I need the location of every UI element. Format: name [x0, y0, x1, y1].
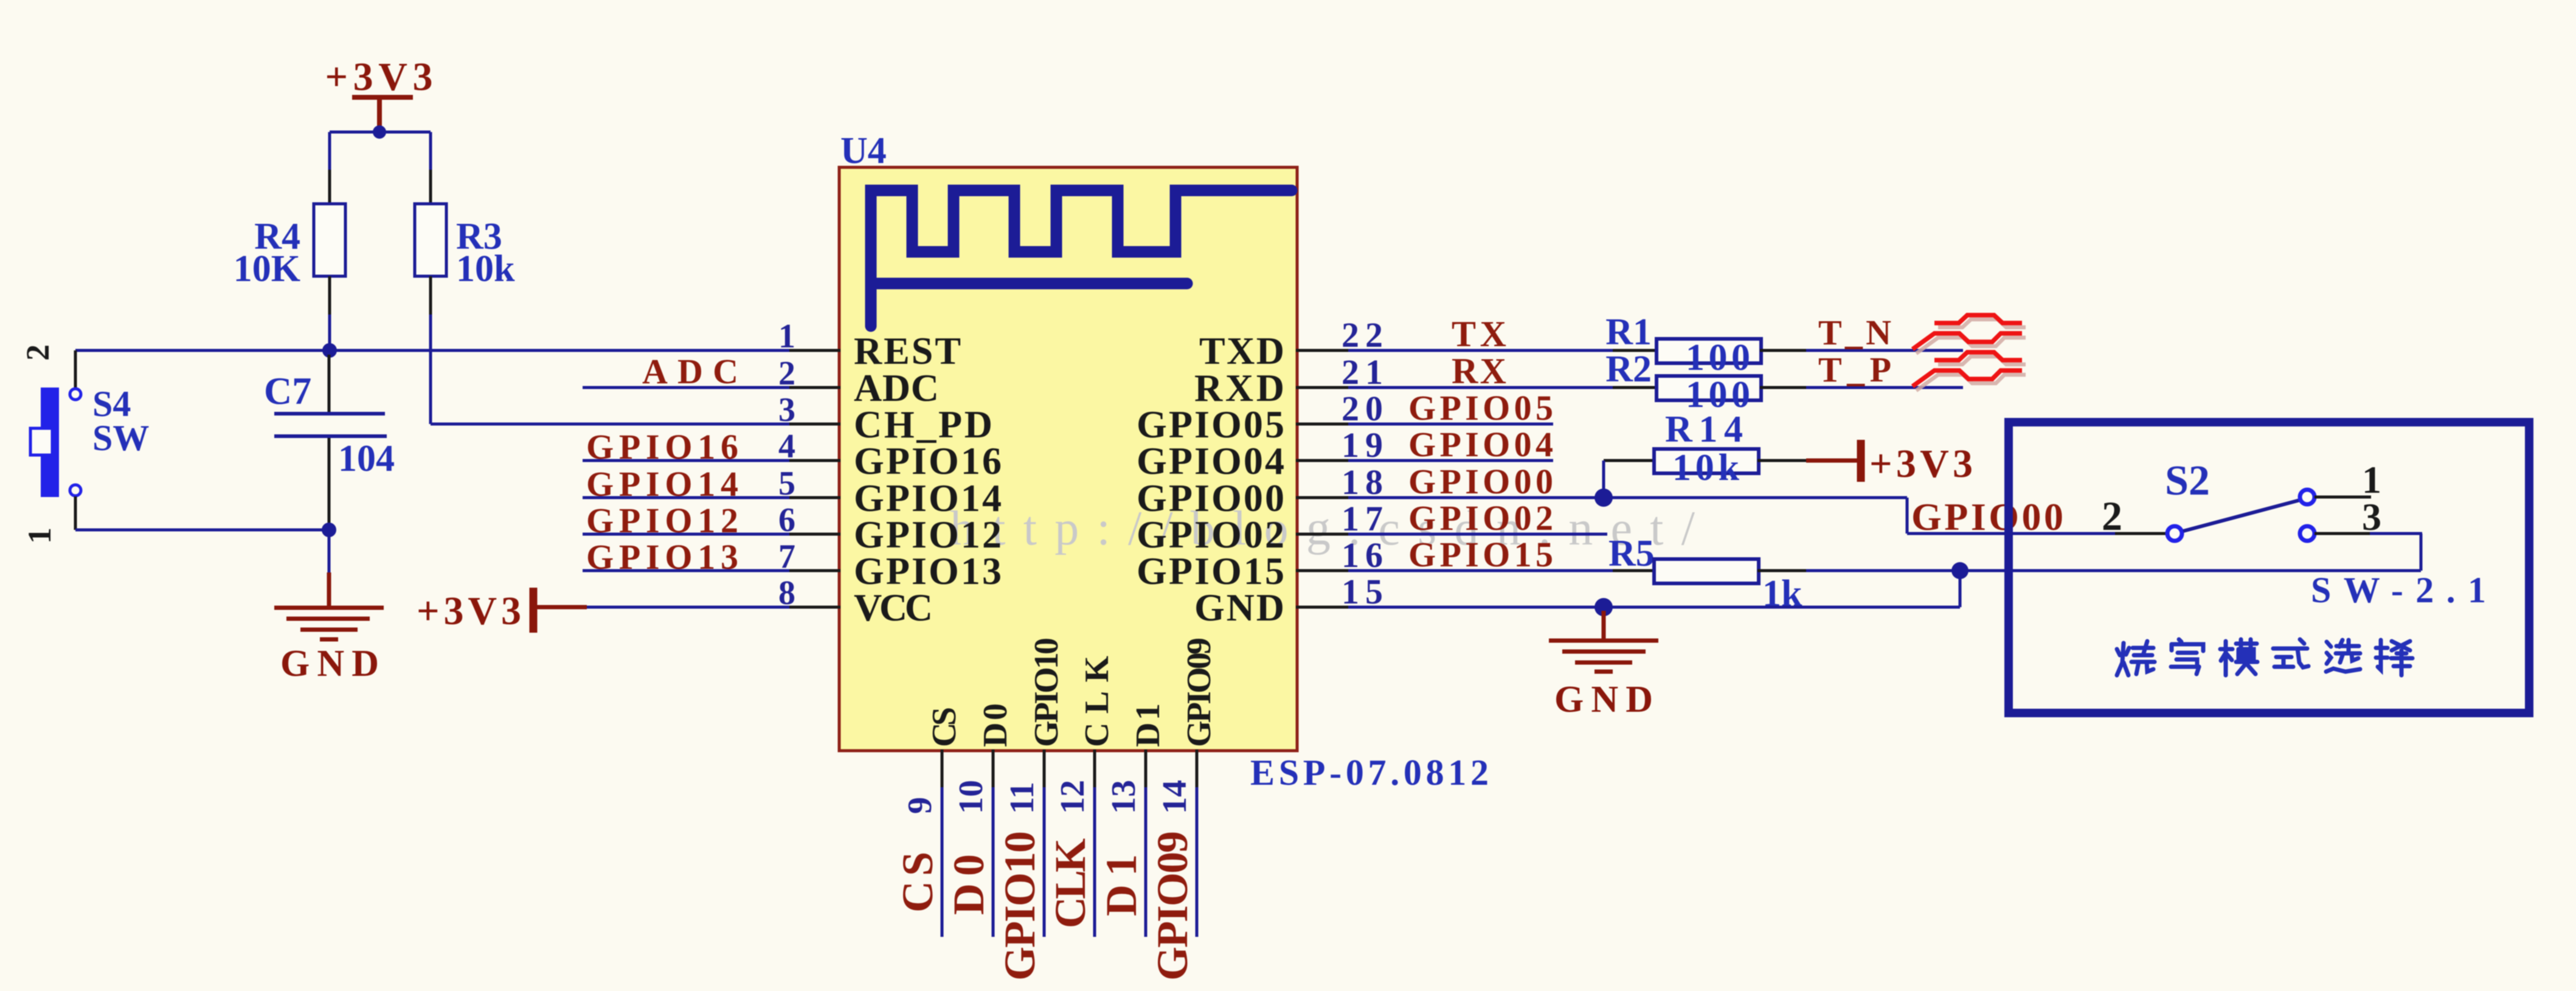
- svg-text:D0: D0: [977, 703, 1014, 747]
- U4 pin 16 stub: [1296, 569, 1348, 572]
- burn-mode selection box outline: [2009, 422, 2529, 713]
- svg-text:19: 19: [1342, 425, 1389, 465]
- wire GPIO12: [583, 533, 789, 536]
- U4 pin 8 stub: [789, 606, 840, 609]
- svg-text:R5: R5: [1608, 533, 1655, 574]
- svg-text:104: 104: [338, 438, 395, 479]
- capacitor C7 top plate: [274, 412, 385, 416]
- power +3V3 (R14) bar: [1857, 440, 1865, 482]
- svg-text:GPIO10: GPIO10: [1028, 638, 1065, 747]
- svg-text:GND: GND: [1194, 586, 1284, 629]
- resistor R5 body: [1654, 559, 1759, 583]
- svg-text:+3V3: +3V3: [1869, 442, 1973, 486]
- svg-text:1: 1: [21, 527, 58, 544]
- svg-text:13: 13: [1105, 780, 1143, 814]
- wire C7 to GND junction: [328, 524, 331, 530]
- wire R3 leg down to CH_PD row: [429, 315, 432, 424]
- svg-text:16: 16: [1342, 535, 1389, 575]
- power +3V3 (top left) bar: [352, 95, 413, 100]
- switch S2 blade: [2183, 500, 2300, 531]
- switch S2 pin2 contact: [2167, 526, 2182, 541]
- switch S4 actuator: [30, 428, 52, 455]
- svg-text:2: 2: [19, 344, 56, 361]
- U4 pin 1 stub: [789, 349, 840, 352]
- U4 antenna meander symbol: [871, 190, 1292, 326]
- caption char 择: [2376, 640, 2412, 675]
- ground (left) stem blue: [328, 530, 331, 572]
- switch S4 top stub: [74, 350, 77, 388]
- node GPIO00/R14 junction: [1594, 489, 1613, 507]
- U4 pin 9 stub: [941, 749, 944, 787]
- svg-text:GPIO09: GPIO09: [1180, 638, 1218, 747]
- wire +3V3 rail: [330, 131, 431, 134]
- wire GPIO04: [1348, 459, 1553, 462]
- U4 pin 13 wire: [1144, 787, 1148, 937]
- svg-text:http://blog.csdn.net/: http://blog.csdn.net/: [950, 502, 1695, 555]
- power +3V3 (R14) stem: [1806, 459, 1858, 463]
- power +3V3 (top left) stem: [377, 97, 382, 129]
- wire S2 pin3 to corner: [2370, 532, 2422, 535]
- wire RX to twisted pair: [1806, 386, 1963, 389]
- U4 pin 21 stub: [1296, 386, 1348, 389]
- wire R4 to REST row: [328, 315, 331, 350]
- power +3V3 (VCC) stem: [537, 605, 587, 610]
- svg-text:C7: C7: [264, 369, 311, 412]
- resistor R5 left pin: [1613, 569, 1658, 572]
- U4 pin 11 stub: [1043, 749, 1046, 787]
- svg-text:11: 11: [1003, 782, 1041, 814]
- resistor R3 body: [415, 204, 446, 276]
- U4 pin 14 wire: [1196, 787, 1199, 937]
- svg-text:20: 20: [1342, 389, 1389, 428]
- svg-text:D1: D1: [1129, 703, 1167, 747]
- node S4/C7/GND junction: [322, 523, 336, 537]
- svg-text:R2: R2: [1605, 349, 1652, 390]
- resistor R4 top pin: [328, 170, 331, 205]
- svg-text:10k: 10k: [1672, 447, 1740, 489]
- svg-text:GPIO10: GPIO10: [995, 831, 1044, 981]
- svg-text:GND: GND: [1554, 679, 1653, 720]
- resistor R4 bottom pin: [328, 276, 331, 315]
- node +3V3 junction: [373, 125, 386, 139]
- svg-text:ADC: ADC: [642, 352, 738, 391]
- svg-text:15: 15: [1342, 572, 1389, 611]
- svg-text:10K: 10K: [234, 248, 300, 290]
- U4 pin 10 stub: [992, 749, 995, 787]
- switch S4 bottom stub: [74, 496, 77, 530]
- U4 pin 6 stub: [789, 533, 840, 536]
- wire S2 corner vertical: [2420, 534, 2423, 571]
- switch S2 pin3 stub: [2315, 532, 2371, 535]
- svg-text:CLK: CLK: [1046, 838, 1095, 928]
- node GND row junction: [1594, 598, 1613, 616]
- wire S4 pin1 row to C7 bottom: [75, 529, 329, 532]
- svg-text:R1: R1: [1605, 311, 1652, 353]
- svg-text:3: 3: [2362, 495, 2381, 538]
- wire GND row: [1348, 606, 1606, 609]
- caption char 烧: [2117, 641, 2155, 675]
- wire GPIO13: [583, 569, 789, 572]
- U4 antenna feed line: [871, 278, 1187, 290]
- switch S2 pin1 stub: [2315, 496, 2371, 499]
- svg-text:S2: S2: [2165, 457, 2210, 504]
- resistor R2 right pin: [1760, 386, 1807, 389]
- resistor R14 left pin: [1604, 459, 1658, 462]
- U4 pin 4 stub: [789, 459, 840, 462]
- U4 pin 2 stub: [789, 386, 840, 389]
- IC U4 body (ESP-07 module): [839, 167, 1297, 751]
- resistor R2 left pin: [1613, 386, 1658, 389]
- switch S4 top contact circle: [70, 389, 81, 400]
- resistor R5 right pin: [1757, 569, 1807, 572]
- resistor R2 body: [1657, 376, 1761, 400]
- ground (right) stem: [1602, 611, 1606, 639]
- wire GPIO00 step down: [1906, 498, 1909, 534]
- svg-text:T_N: T_N: [1818, 313, 1891, 352]
- wire TXD row: [1348, 349, 1614, 352]
- U4 pin 11 wire: [1043, 787, 1046, 937]
- wire GND row to corner: [1601, 606, 1960, 609]
- resistor R4 body: [314, 204, 345, 276]
- wire R5 to junction: [1806, 569, 1960, 572]
- svg-text:+3V3: +3V3: [417, 589, 521, 633]
- caption char 式: [2273, 639, 2308, 667]
- U4 pin 17 stub: [1296, 533, 1348, 536]
- resistor R3 bottom pin: [429, 276, 432, 315]
- wire RXD row: [1348, 386, 1614, 389]
- wire REST row (S4 to chip pin 1): [75, 349, 789, 352]
- U4 pin 12 wire: [1093, 787, 1096, 937]
- resistor R3 top pin: [429, 170, 432, 205]
- svg-text:GPIO09: GPIO09: [1148, 831, 1197, 981]
- svg-text:10k: 10k: [456, 248, 515, 290]
- svg-text:CLK: CLK: [1078, 656, 1116, 747]
- svg-text:ESP-07.0812: ESP-07.0812: [1250, 753, 1489, 793]
- wire CH_PD row: [431, 423, 789, 426]
- svg-text:CS: CS: [893, 852, 942, 913]
- svg-text:18: 18: [1342, 462, 1389, 502]
- U4 pin 12 stub: [1093, 749, 1096, 787]
- svg-text:12: 12: [1054, 780, 1092, 814]
- resistor R14 body: [1654, 449, 1759, 473]
- wire R14 leg down: [1602, 461, 1605, 498]
- switch S4 body bar: [41, 388, 59, 497]
- node R5/GND-net junction: [1951, 562, 1968, 579]
- wire GPIO05: [1348, 423, 1553, 426]
- svg-text:14: 14: [1156, 780, 1194, 814]
- power +3V3 (VCC) bar: [530, 588, 538, 633]
- wire R4 top leg: [328, 132, 331, 170]
- wire TX to twisted pair: [1806, 349, 1963, 352]
- svg-text:21: 21: [1342, 352, 1389, 392]
- ground (left) stem red: [327, 572, 331, 606]
- svg-text:22: 22: [1342, 315, 1389, 355]
- svg-text:VCC: VCC: [854, 586, 933, 629]
- wire GPIO15 row: [1348, 569, 1614, 572]
- resistor R1 left pin: [1613, 349, 1658, 352]
- capacitor C7 top stem: [328, 355, 331, 412]
- U4 pin 20 stub: [1296, 423, 1348, 426]
- wire GPIO16: [583, 459, 789, 462]
- svg-text:17: 17: [1342, 499, 1389, 538]
- svg-text:9: 9: [901, 797, 939, 814]
- caption char 写: [2171, 639, 2203, 674]
- U4 pin 13 stub: [1144, 749, 1148, 787]
- capacitor C7 bottom plate: [274, 434, 387, 438]
- wire R3 top leg: [429, 132, 432, 170]
- wire GPIO02: [1348, 533, 1607, 536]
- capacitor C7 bottom stem: [328, 438, 331, 524]
- U4 pin 15 stub: [1296, 606, 1348, 609]
- resistor R14 right pin: [1757, 459, 1807, 462]
- twisted-pair symbol T_N: [1916, 319, 2026, 353]
- wire VCC row: [587, 606, 789, 609]
- wire GPIO00 row: [1348, 496, 1907, 499]
- svg-text:10: 10: [952, 780, 990, 814]
- wire junction to S2 pin3 corner: [1960, 569, 2421, 572]
- U4 pin 7 stub: [789, 569, 840, 572]
- resistor R1 right pin: [1760, 349, 1807, 352]
- ground (left) symbol: [274, 606, 384, 610]
- svg-text:100: 100: [1686, 337, 1750, 378]
- svg-text:D0: D0: [944, 854, 993, 915]
- U4 pin 22 stub: [1296, 349, 1348, 352]
- svg-text:CS: CS: [926, 707, 963, 747]
- switch S2 pin2 stub: [2115, 532, 2167, 535]
- wire GPIO00 to S2: [1907, 532, 2117, 535]
- svg-text:+3V3: +3V3: [325, 55, 433, 99]
- U4 pin 5 stub: [789, 496, 840, 499]
- U4 pin 9 wire: [941, 787, 944, 937]
- wire ADC: [583, 386, 789, 389]
- switch S4 bottom contact circle: [70, 485, 81, 496]
- switch S2 pin3 contact: [2300, 526, 2315, 541]
- svg-text:SW: SW: [92, 418, 149, 458]
- U4 pin 10 wire: [992, 787, 995, 937]
- svg-text:R14: R14: [1665, 409, 1743, 450]
- svg-text:D1: D1: [1097, 854, 1146, 916]
- svg-text:U4: U4: [840, 130, 887, 172]
- svg-text:GND: GND: [280, 643, 379, 684]
- wire corner up to R5 line: [1959, 571, 1962, 607]
- ground (right) symbol: [1549, 639, 1658, 643]
- U4 pin 14 stub: [1196, 749, 1199, 787]
- wire GPIO14: [583, 496, 789, 499]
- U4 pin 19 stub: [1296, 459, 1348, 462]
- caption char 选: [2326, 640, 2360, 672]
- U4 pin 3 stub: [789, 423, 840, 426]
- switch S2 pin1 contact: [2300, 490, 2315, 504]
- caption char 模: [2220, 639, 2257, 675]
- twisted-pair symbol T_P: [1916, 356, 2026, 391]
- resistor R1 body: [1657, 339, 1761, 363]
- svg-text:T_P: T_P: [1818, 350, 1891, 389]
- U4 pin 18 stub: [1296, 496, 1348, 499]
- node REST/R4/C7 junction: [322, 343, 337, 358]
